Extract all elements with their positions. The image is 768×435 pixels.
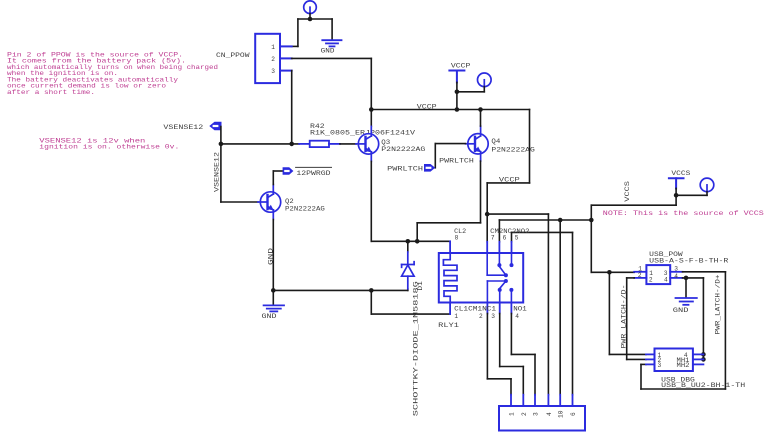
wire VCCP rail <box>371 109 529 111</box>
wire USB_POW pin3 PWR_LATCH-/D+ <box>641 272 725 389</box>
wire VCCP branch to connector pin4 <box>487 214 548 395</box>
svg-text:SCHOTTKY-DIODE_1N5818G: SCHOTTKY-DIODE_1N5818G <box>413 281 421 416</box>
wire R42 to Q3 base <box>340 143 356 145</box>
svg-text:PWR_LATCH-/D+: PWR_LATCH-/D+ <box>715 275 723 335</box>
transistor Q2 <box>258 185 281 220</box>
svg-text:NOTE: This is the source of VC: NOTE: This is the source of VCCS <box>603 210 765 217</box>
connector CN_PPOW <box>255 34 292 83</box>
wire CN_PPOW pin3 down <box>291 71 293 144</box>
wire NO1 to connector pin3 <box>511 314 535 395</box>
pink note block 1 <box>7 51 218 96</box>
wire Q3 emitter to coil net CL2 <box>371 161 450 241</box>
wire connector pin10 drop <box>559 220 561 395</box>
node VCCS riser <box>589 218 594 223</box>
wire Q4 collector to rail <box>480 110 482 127</box>
svg-text:VCCP: VCCP <box>499 176 520 184</box>
wire NO2 to connector pin6 <box>512 232 573 394</box>
svg-text:GND: GND <box>673 307 689 315</box>
ground GND2 <box>272 290 274 305</box>
svg-text:8: 8 <box>455 235 459 242</box>
svg-text:VCCP: VCCP <box>451 63 471 71</box>
svg-text:MH2: MH2 <box>677 362 690 370</box>
relay contacts top set <box>487 253 511 275</box>
node USB_DBG pin4 <box>701 352 706 357</box>
node ground rail left <box>271 288 276 293</box>
svg-text:4: 4 <box>664 276 668 283</box>
svg-text:PWRLTCH: PWRLTCH <box>387 166 423 174</box>
wire VCCS symbols <box>591 188 707 272</box>
node junction top <box>308 17 313 22</box>
node Q4 emitter junction <box>415 239 420 244</box>
wire USB_POW pin2 PWR_LATCH-/D- <box>627 278 646 360</box>
ground GND3 <box>676 298 697 305</box>
node VCCS pin10 branch <box>558 218 563 223</box>
node VCCP rail tee <box>455 107 460 112</box>
svg-text:after a short time.: after a short time. <box>7 89 95 96</box>
svg-text:6: 6 <box>570 412 577 416</box>
power VCCP bar symbol <box>449 71 464 83</box>
svg-text:1: 1 <box>509 412 516 416</box>
svg-text:2: 2 <box>638 272 642 279</box>
node pin3/VSENSE12 <box>289 142 294 147</box>
svg-text:2: 2 <box>521 412 528 416</box>
node GND branch USB_POW pin4 <box>684 276 689 281</box>
svg-text:P2N2222AG: P2N2222AG <box>491 146 534 154</box>
svg-text:CM2NC2NO2: CM2NC2NO2 <box>490 228 529 236</box>
svg-text:Q4: Q4 <box>491 138 500 146</box>
transistor Q3 <box>356 126 379 161</box>
svg-text:4: 4 <box>515 313 519 320</box>
pink note block 2 <box>39 137 179 150</box>
svg-text:PWRLTCH: PWRLTCH <box>439 158 474 166</box>
node Q4 collector on rail <box>478 107 483 112</box>
svg-text:R1K_0805_ERJP06F1241V: R1K_0805_ERJP06F1241V <box>310 130 416 138</box>
svg-text:5: 5 <box>515 235 519 242</box>
connector bottom debug header <box>499 406 585 431</box>
svg-text:VSENSE12: VSENSE12 <box>163 124 203 132</box>
svg-text:2: 2 <box>649 276 653 283</box>
wire NC2 to VCCS net <box>499 220 591 242</box>
power circle symbol top <box>304 1 317 14</box>
connector USB_POW <box>646 265 670 284</box>
svg-text:CN_PPOW: CN_PPOW <box>216 52 251 60</box>
node CL1 branch <box>369 288 374 293</box>
wire Q4 base PWRLTCH <box>435 144 465 168</box>
relay RLY1 <box>439 253 523 303</box>
svg-text:GND: GND <box>262 313 277 321</box>
resistor R42 <box>299 141 340 147</box>
wire VCCP drop to relay CM2 <box>487 110 529 242</box>
wire CN_PPOW pin2 to VCCP rail <box>292 58 372 126</box>
svg-text:PWR_LATCH-/D-: PWR_LATCH-/D- <box>621 285 629 349</box>
net label 12PWRGD <box>283 167 294 174</box>
svg-text:VCCS: VCCS <box>671 170 690 178</box>
svg-text:ignition is on. otherwise 0v.: ignition is on. otherwise 0v. <box>39 144 179 151</box>
node VCCP symbol tee <box>455 90 460 95</box>
wire Q2 collector to 12PWRGD <box>273 171 283 185</box>
svg-text:2: 2 <box>271 56 275 63</box>
ground GND1 <box>322 40 341 46</box>
wire CM1 to connector pin1 <box>487 314 511 395</box>
power circle symbol VCCS <box>700 178 714 192</box>
wire USB_POW pin4 to GND and USB_DBG <box>683 278 704 360</box>
wire pin1 CN_PPOW to power/gnd <box>292 14 332 47</box>
svg-text:USB_B_UU2-BH-1-TH: USB_B_UU2-BH-1-TH <box>661 382 745 390</box>
node VCCP pin4 branch <box>485 212 490 217</box>
node D1 cathode junction <box>406 239 411 244</box>
svg-text:1: 1 <box>454 313 458 320</box>
relay pin stubs <box>450 241 511 314</box>
wire Q4 emitter to CL2 net <box>417 161 480 241</box>
svg-text:3: 3 <box>658 362 662 369</box>
svg-text:P2N2222AG: P2N2222AG <box>285 206 325 214</box>
svg-text:VCCS: VCCS <box>624 181 632 202</box>
svg-text:GND: GND <box>321 48 335 56</box>
wire VSENSE12 net <box>221 127 299 203</box>
connector USB_DBG <box>655 349 693 372</box>
node rail/Q3 <box>369 107 374 112</box>
svg-text:3: 3 <box>674 265 678 272</box>
svg-text:10: 10 <box>558 410 565 418</box>
svg-text:12PWRGD: 12PWRGD <box>296 170 330 178</box>
diode D1 schottky <box>407 241 409 290</box>
transistor Q4 <box>466 126 489 161</box>
svg-text:3: 3 <box>271 68 275 75</box>
wire VCCP symbols to rail <box>457 82 484 109</box>
power circle symbol VCCP <box>478 73 492 87</box>
svg-text:P2N2222AG: P2N2222AG <box>381 146 425 154</box>
svg-text:3: 3 <box>533 412 540 416</box>
power VCCS bar symbol <box>669 178 684 188</box>
svg-text:D1: D1 <box>417 281 425 291</box>
svg-text:2: 2 <box>479 313 483 320</box>
node USB_DBG pin1 branch <box>607 270 612 275</box>
node USB_DBG MH1 <box>701 357 706 362</box>
wire Q2 emitter to ground rail <box>272 220 274 291</box>
wire CL1 branch to relay pin1 <box>371 290 450 314</box>
svg-text:3: 3 <box>491 313 495 320</box>
relay contacts bottom set <box>487 281 511 303</box>
svg-text:4: 4 <box>674 273 678 280</box>
svg-text:6: 6 <box>503 235 507 242</box>
wire ground rail <box>273 289 408 291</box>
svg-text:USB-A-S-F-B-TH-R: USB-A-S-F-B-TH-R <box>649 258 728 266</box>
wire NC1 to connector pin2 <box>500 314 524 395</box>
svg-text:GND: GND <box>267 248 275 265</box>
svg-text:CL1CM1NC1: CL1CM1NC1 <box>454 306 496 314</box>
svg-text:7: 7 <box>491 235 495 242</box>
node VSENSE12 corner <box>219 142 224 147</box>
svg-text:RLY1: RLY1 <box>438 322 459 330</box>
relay coil <box>443 253 457 303</box>
wire VCCS to USB_POW pin1 and USB_DBG pin1 <box>591 272 646 354</box>
svg-text:1: 1 <box>271 44 275 51</box>
svg-text:4: 4 <box>546 412 553 416</box>
svg-text:VSENSE12: VSENSE12 <box>213 152 221 192</box>
node VCCS symbol tee <box>674 193 679 198</box>
svg-text:VCCP: VCCP <box>417 103 437 111</box>
